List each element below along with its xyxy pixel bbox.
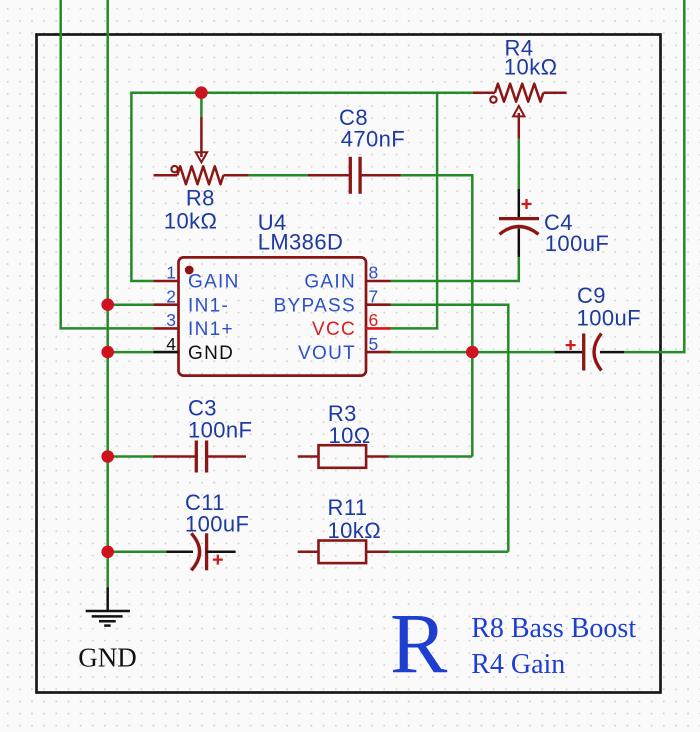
pin 4 GND bbox=[153, 334, 234, 364]
capacitor C8 bbox=[308, 157, 401, 194]
svg-text:470nF: 470nF bbox=[341, 127, 405, 152]
pin 7 BYPASS bbox=[274, 286, 391, 316]
junction pin 4 on GND rail bbox=[101, 346, 114, 359]
wire R3 to VOUT riser bbox=[389, 455, 472, 458]
wire C3 left to GND rail bbox=[108, 455, 153, 458]
svg-text:GAIN: GAIN bbox=[188, 272, 240, 293]
svg-text:GND: GND bbox=[188, 343, 234, 364]
svg-text:R11: R11 bbox=[328, 495, 368, 520]
svg-text:IN1+: IN1+ bbox=[188, 319, 234, 340]
capacitor C4 polarized bbox=[499, 189, 539, 257]
wire R4 wiper to C4 top bbox=[518, 139, 521, 189]
wire R8 wiper drop bbox=[200, 93, 203, 117]
svg-text:3: 3 bbox=[166, 310, 176, 330]
pin 6 VCC bbox=[312, 310, 391, 340]
svg-text:R8: R8 bbox=[186, 186, 215, 211]
resistor R11 bbox=[298, 541, 389, 564]
junction C3 on GND rail bbox=[101, 450, 114, 463]
svg-text:GAIN: GAIN bbox=[304, 272, 356, 293]
wire R11 to BYPASS riser bbox=[389, 551, 508, 554]
svg-text:100nF: 100nF bbox=[188, 418, 252, 443]
svg-text:100uF: 100uF bbox=[545, 231, 609, 256]
pin 2 IN1- bbox=[153, 286, 229, 316]
potentiometer R4 bbox=[473, 84, 567, 139]
wire BYPASS riser pin 7 bbox=[391, 305, 509, 552]
svg-text:2: 2 bbox=[166, 286, 176, 306]
junction C11 on GND rail bbox=[101, 546, 114, 559]
svg-text:R: R bbox=[390, 595, 448, 691]
svg-text:IN1-: IN1- bbox=[188, 295, 229, 316]
resistor R3 bbox=[298, 445, 389, 468]
svg-text:8: 8 bbox=[369, 263, 379, 283]
ground bbox=[86, 587, 130, 625]
junction pin 2 on GND rail bbox=[101, 298, 114, 311]
capacitor C9 polarized bbox=[554, 334, 624, 371]
wire C9 to right edge riser bbox=[624, 0, 684, 352]
junction VOUT riser bbox=[466, 346, 479, 359]
junction top rail at R8 wiper bbox=[195, 86, 208, 99]
svg-text:R4 Gain: R4 Gain bbox=[471, 649, 565, 680]
svg-text:10kΩ: 10kΩ bbox=[504, 54, 558, 79]
wire pin 4 to GND rail bbox=[108, 351, 154, 354]
capacitor C11 polarized bbox=[167, 533, 236, 570]
wire R8 to C8 bbox=[249, 174, 308, 177]
svg-text:4: 4 bbox=[166, 334, 176, 354]
svg-text:6: 6 bbox=[369, 310, 379, 330]
wire GND rail vertical bbox=[106, 0, 109, 587]
wire IN1+ riser to pin 3 bbox=[61, 0, 154, 328]
pin 5 VOUT bbox=[298, 334, 390, 364]
svg-text:R8 Bass Boost: R8 Bass Boost bbox=[471, 613, 636, 644]
pin 3 IN1+ bbox=[153, 310, 233, 340]
svg-text:100uF: 100uF bbox=[577, 306, 641, 331]
svg-text:VCC: VCC bbox=[312, 319, 356, 340]
wire C8 to VOUT riser bbox=[401, 175, 472, 456]
wire C11 left to GND rail bbox=[108, 551, 167, 554]
wire VOUT row pin 5 to C9 bbox=[391, 351, 555, 354]
svg-text:GND: GND bbox=[78, 642, 137, 672]
svg-text:10kΩ: 10kΩ bbox=[164, 209, 218, 234]
capacitor C3 bbox=[153, 441, 246, 473]
svg-text:10kΩ: 10kΩ bbox=[328, 518, 382, 543]
svg-text:LM386D: LM386D bbox=[258, 229, 344, 254]
op-amp U4 LM386D body bbox=[179, 257, 367, 375]
svg-text:VOUT: VOUT bbox=[298, 343, 356, 364]
pin 1 GAIN bbox=[153, 263, 239, 293]
svg-text:C9: C9 bbox=[577, 283, 606, 308]
svg-text:10Ω: 10Ω bbox=[328, 423, 370, 448]
svg-text:1: 1 bbox=[166, 263, 176, 283]
svg-text:7: 7 bbox=[369, 286, 379, 306]
wire pin 1 riser and top gain rail bbox=[131, 93, 473, 281]
svg-text:5: 5 bbox=[369, 334, 379, 354]
svg-text:100uF: 100uF bbox=[185, 511, 249, 536]
wire pin 8 to C4 bottom bbox=[391, 257, 519, 281]
wire VCC riser pin 6 to top rail bbox=[391, 93, 438, 329]
potentiometer R8 bbox=[154, 117, 249, 184]
pin 8 GAIN bbox=[304, 263, 390, 293]
wire pin 2 to GND rail bbox=[108, 303, 154, 306]
svg-text:BYPASS: BYPASS bbox=[274, 295, 356, 316]
